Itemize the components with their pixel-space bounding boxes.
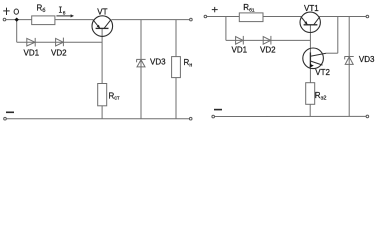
svg-text:VD1: VD1 [232,46,248,55]
svg-text:б: б [63,10,66,15]
svg-text:VT2: VT2 [315,68,330,77]
svg-text:VT1: VT1 [304,4,319,13]
svg-text:VT: VT [97,7,107,16]
svg-text:VD3: VD3 [150,57,166,66]
svg-text:VD3: VD3 [359,55,375,64]
svg-text:VD2: VD2 [51,48,67,57]
svg-text:VD2: VD2 [260,46,276,55]
svg-text:VD1: VD1 [24,48,40,57]
